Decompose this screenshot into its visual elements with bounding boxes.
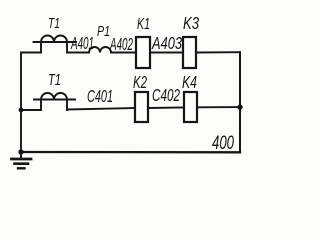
wire: left vertical bus (20, 53, 22, 153)
svg-text:400: 400 (212, 132, 234, 154)
wire: top row left stub (21, 52, 41, 54)
current transformer T1 (top): winding humps (41, 36, 67, 42)
svg-text:T1: T1 (48, 72, 61, 89)
svg-text:T1: T1 (48, 15, 60, 32)
svg-text:C402: C402 (152, 85, 180, 105)
current transformer T1 (top): primary line (34, 41, 77, 43)
relay contact K2 (box) (135, 92, 148, 122)
wire: K1 to K3 (150, 52, 183, 54)
junction node: bottom row tap on left bus (19, 108, 24, 113)
current transformer T1 (bottom): winding humps (41, 93, 67, 100)
current transformer T1 (bottom): secondary leads (41, 100, 67, 111)
svg-text:A403: A403 (151, 33, 182, 53)
svg-text:K4: K4 (182, 72, 197, 92)
svg-text:C401: C401 (87, 86, 113, 106)
ground bar 2 (15, 162, 29, 165)
svg-text:K2: K2 (133, 72, 147, 92)
current transformer T1 (bottom): primary line (34, 99, 75, 101)
wire: T1 to P1 (67, 52, 89, 54)
wire: K2 to K4 (148, 107, 184, 110)
wire: bottom bus 400 (21, 151, 240, 154)
junction node: bottom row tap on right bus (237, 104, 242, 109)
relay contact K1 (box) (136, 37, 150, 68)
inductor P1 winding (89, 47, 111, 52)
wire: right vertical bus (239, 52, 241, 152)
svg-text:A401: A401 (70, 33, 94, 53)
wire: K3 to right bus (196, 51, 240, 53)
ground bar 1 (12, 158, 32, 161)
wire: P1 to K1 (111, 52, 136, 54)
wire: K4 to right bus (197, 106, 240, 108)
relay contact K4 (box) (184, 92, 197, 122)
relay contact K3 (box) (183, 37, 196, 68)
svg-text:P1: P1 (97, 23, 110, 40)
current transformer T1 (top): secondary leads (41, 42, 67, 53)
svg-text:K3: K3 (183, 13, 199, 33)
ground stub (20, 152, 22, 159)
junction node: ground tap (18, 149, 23, 154)
wire: T1 to K2 (67, 108, 135, 110)
ground bar 3 (18, 167, 25, 169)
wire: bottom row left stub (21, 109, 41, 111)
svg-text:K1: K1 (137, 16, 150, 33)
svg-text:A402: A402 (109, 34, 133, 54)
